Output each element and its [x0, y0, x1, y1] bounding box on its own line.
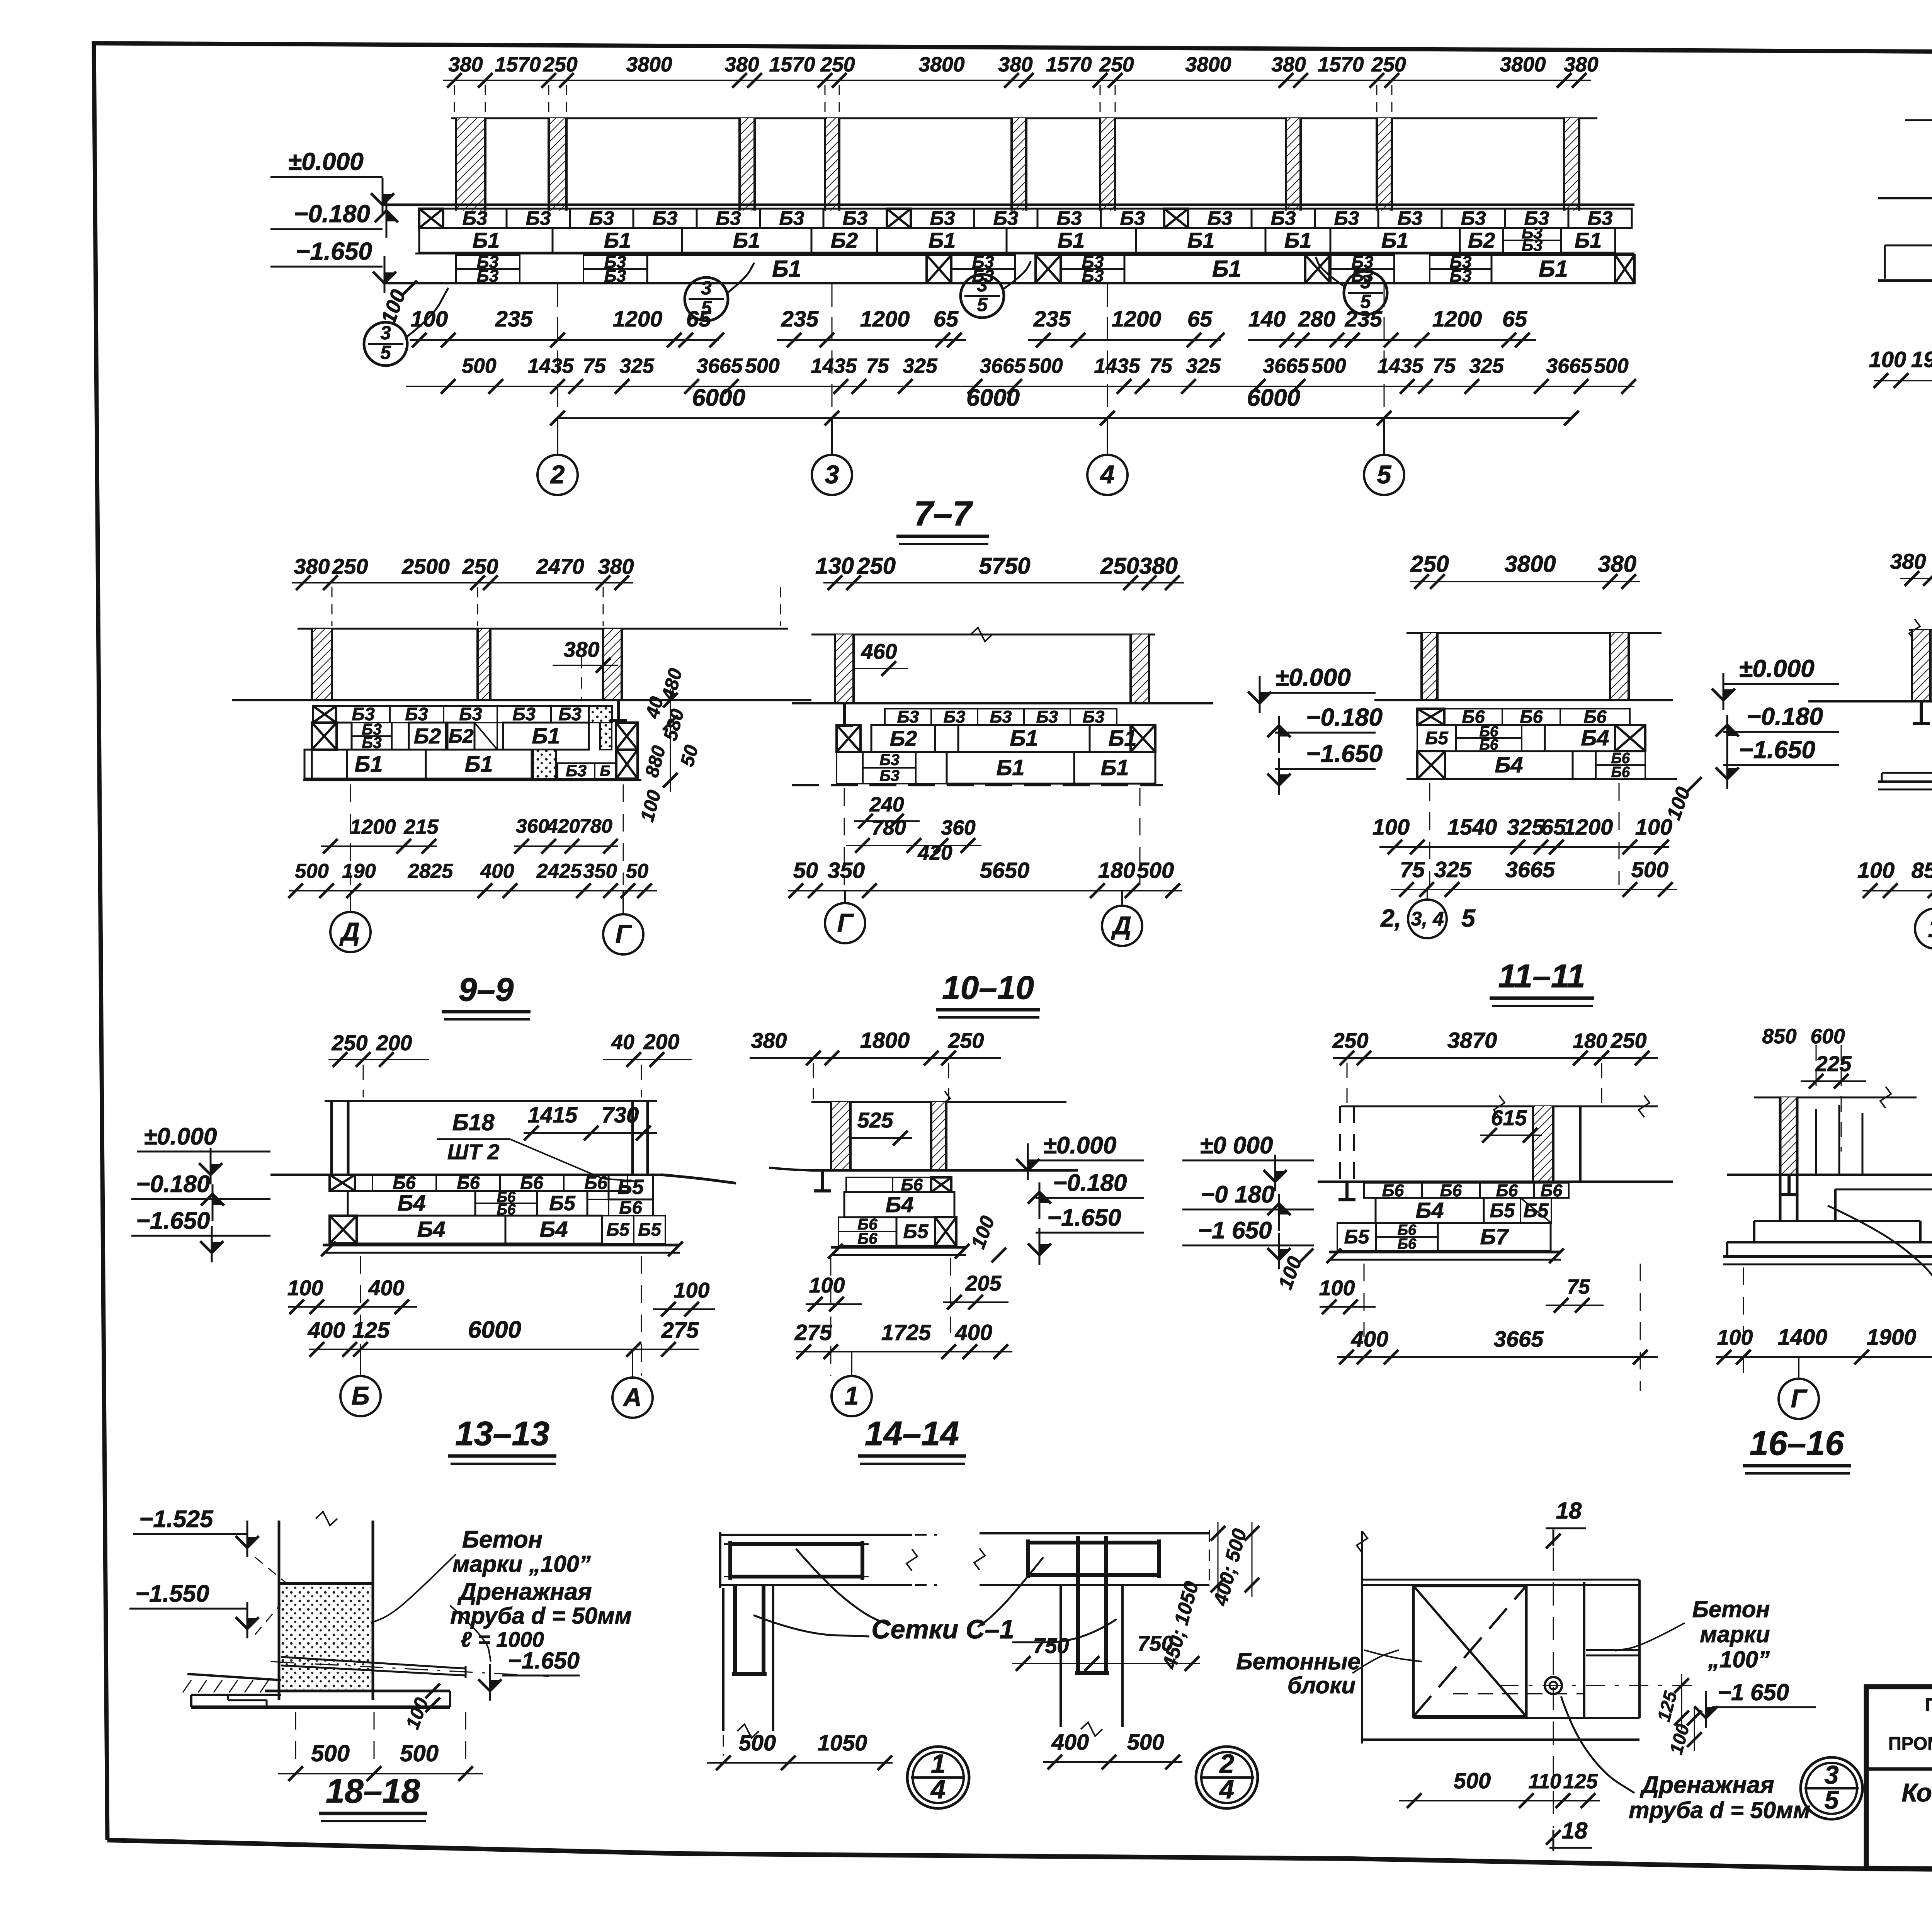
section 10-10 block row 1: [885, 709, 931, 725]
svg-text:Б6: Б6: [520, 1172, 543, 1193]
svg-text:325: 325: [1469, 355, 1504, 378]
section 16-16 leader podbetonka: [1828, 1206, 1932, 1298]
svg-text:420: 420: [546, 815, 580, 837]
svg-text:75: 75: [583, 355, 606, 378]
section 7-7 block row 1: [419, 209, 443, 228]
svg-text:100: 100: [1635, 815, 1672, 840]
svg-text:±0.000: ±0.000: [1275, 663, 1351, 691]
detail 2-4 mesh horizontal: [1028, 1541, 1159, 1544]
node circle 3/5 near title block: [1801, 1757, 1862, 1819]
svg-text:Б6: Б6: [857, 1230, 878, 1247]
svg-text:Бетонные: Бетонные: [1236, 1648, 1361, 1674]
svg-text:380: 380: [724, 53, 759, 76]
svg-text:500: 500: [462, 355, 497, 378]
section 7-7 column pair at grid 4: [1012, 118, 1026, 211]
svg-text:Б3: Б3: [589, 207, 614, 229]
svg-text:Б7: Б7: [1480, 1225, 1509, 1249]
svg-text:Компрессорная: Компрессорная: [1901, 1779, 1932, 1807]
section 7-7 extension lines: [557, 284, 558, 454]
svg-text:130: 130: [815, 553, 854, 579]
section 10-10 extension dashed: [844, 788, 845, 885]
detail 1-4 mesh vertical: [733, 1585, 737, 1674]
section 8-8 floor line: [1878, 197, 1932, 199]
section 9-9 extension dashed: [350, 784, 351, 885]
svg-text:250: 250: [820, 53, 855, 76]
section 8-8 band bottom: [1878, 279, 1932, 282]
svg-text:380: 380: [1139, 553, 1178, 579]
section 10-10 left anchor tee: [843, 703, 846, 726]
section 15 top wall line with break: [1341, 1106, 1658, 1107]
svg-text:3800: 3800: [1504, 551, 1556, 577]
svg-text:100: 100: [411, 307, 448, 332]
svg-text:100: 100: [809, 1273, 845, 1297]
section 9-9 grid circle right: [622, 891, 624, 914]
section 7-7 row 3 long blocks B1: [647, 255, 927, 283]
svg-text:Б5: Б5: [638, 1219, 661, 1240]
svg-text:Б4: Б4: [417, 1217, 445, 1242]
svg-text:Б3: Б3: [566, 762, 587, 780]
svg-text:Б3: Б3: [1522, 236, 1543, 255]
svg-text:Б4: Б4: [1581, 726, 1609, 750]
svg-text:100: 100: [1319, 1276, 1355, 1300]
border frame bottom edge: [107, 1840, 1932, 1876]
svg-text:75: 75: [866, 355, 889, 378]
svg-text:Б1: Б1: [1284, 228, 1311, 252]
svg-text:14–14: 14–14: [865, 1415, 959, 1453]
section 7-7 dim row a lines: [410, 339, 719, 341]
section 14-14 top dimension line: [750, 1057, 1001, 1059]
svg-text:Б3: Б3: [1036, 707, 1058, 726]
svg-text:Б1: Б1: [1058, 228, 1085, 252]
svg-text:3665: 3665: [1546, 355, 1592, 378]
svg-text:50: 50: [793, 858, 818, 883]
detail 1-4 wall band horizontal: [720, 1534, 912, 1536]
svg-text:Б3: Б3: [716, 207, 741, 229]
section 16-16 column hatched: [1780, 1097, 1797, 1175]
svg-text:Б3: Б3: [944, 707, 966, 726]
svg-text:4: 4: [930, 1774, 946, 1804]
section 9-9 block row 2: [312, 723, 337, 750]
svg-text:Б3: Б3: [879, 767, 900, 784]
svg-text:360: 360: [516, 815, 549, 837]
svg-text:марки „100”: марки „100”: [452, 1551, 591, 1577]
svg-text:250: 250: [948, 1029, 984, 1053]
svg-text:Б1: Б1: [464, 752, 493, 777]
svg-text:600: 600: [1810, 1025, 1845, 1048]
section 14-14 floor line: [769, 1168, 811, 1170]
plan detail left wall line: [1361, 1531, 1363, 1744]
svg-text:Б2: Б2: [449, 725, 474, 747]
section 16-16 extension dashed: [1743, 1267, 1744, 1376]
section 12-12 column left: [1912, 630, 1930, 701]
svg-text:ГОССТРОЙ СССР: ГОССТРОЙ СССР: [1925, 1694, 1932, 1715]
svg-text:100: 100: [1372, 815, 1410, 840]
section 14-14 block row 2: [844, 1192, 954, 1217]
section 13-13 top wall line: [325, 1100, 657, 1102]
svg-text:Б2: Б2: [414, 724, 441, 748]
svg-text:18: 18: [1556, 1498, 1582, 1524]
section 14-14 block row 1: [846, 1177, 893, 1192]
section 11-11 grid circle: [1427, 890, 1428, 900]
section 14-14 top wall line: [811, 1101, 1066, 1103]
svg-text:Б3: Б3: [897, 707, 919, 726]
svg-text:Б3: Б3: [1461, 207, 1486, 229]
svg-text:−0.180: −0.180: [1747, 703, 1823, 730]
svg-text:труба d = 50мм: труба d = 50мм: [450, 1603, 632, 1629]
svg-text:Б3: Б3: [879, 751, 900, 769]
section 9-9 column right: [603, 629, 622, 700]
svg-text:Б3: Б3: [526, 207, 551, 229]
section 9-9 top dimension line: [292, 582, 633, 583]
svg-text:750: 750: [1033, 1634, 1069, 1658]
svg-text:3: 3: [1360, 271, 1371, 293]
svg-text:500: 500: [1137, 858, 1174, 883]
section 14-14 block row 3: [838, 1217, 896, 1232]
svg-text:75: 75: [1567, 1276, 1590, 1298]
svg-text:−0.180: −0.180: [1306, 703, 1383, 731]
svg-text:Б5: Б5: [1490, 1199, 1515, 1221]
svg-text:180: 180: [1573, 1030, 1607, 1053]
svg-text:−1.650: −1.650: [508, 1648, 580, 1674]
svg-text:380: 380: [1564, 53, 1599, 76]
svg-text:7–7: 7–7: [914, 495, 973, 533]
svg-text:225: 225: [1815, 1052, 1852, 1076]
svg-text:1900: 1900: [1911, 347, 1932, 372]
section 9-9 column middle: [478, 629, 490, 700]
section 7-7 grid circle 2: [557, 418, 558, 455]
section 7-7 grid circle 3: [831, 418, 833, 455]
section 16-16 step 2 footing: [1727, 1241, 1932, 1243]
svg-text:235: 235: [1345, 307, 1383, 332]
section 7-7 column pair at grid 3: [740, 118, 755, 211]
svg-text:110: 110: [1528, 1770, 1561, 1793]
section 7-7 column pair at grid 5: [1286, 118, 1301, 211]
svg-text:Б4: Б4: [397, 1191, 425, 1216]
svg-text:Б5: Б5: [1344, 1226, 1370, 1248]
section 12-12 top wall line: [1909, 629, 1932, 631]
svg-text:Б6: Б6: [584, 1172, 607, 1193]
svg-text:Б1: Б1: [532, 724, 560, 748]
detail 1-4 leader: [796, 1549, 889, 1625]
section 7-7 leader circle 3/5 c: [961, 274, 1004, 318]
section 10-10 grid circle left: [844, 891, 846, 903]
svg-text:Б3: Б3: [1207, 207, 1233, 229]
svg-text:500: 500: [295, 860, 328, 883]
svg-text:5: 5: [1377, 461, 1392, 489]
svg-text:125: 125: [1563, 1770, 1598, 1793]
svg-text:100: 100: [1869, 347, 1906, 372]
svg-text:1570: 1570: [1046, 53, 1092, 76]
svg-text:500: 500: [1127, 1730, 1164, 1755]
svg-text:250: 250: [857, 553, 896, 579]
section 18-18 column walls: [278, 1521, 281, 1700]
svg-text:−1.650: −1.650: [296, 237, 372, 265]
section 7-7 band bottom line: [415, 282, 1634, 284]
section 14-14 extension dashed: [830, 1258, 832, 1376]
section 9-9 column left: [312, 629, 332, 700]
plan detail bottom lines: [1413, 1717, 1639, 1719]
svg-text:16–16: 16–16: [1750, 1424, 1844, 1462]
svg-text:±0.000: ±0.000: [288, 148, 364, 175]
svg-text:3665: 3665: [696, 355, 743, 378]
section 18-18 footing outline: [191, 1694, 281, 1696]
section 18-18 ground line left: [187, 1674, 281, 1680]
svg-text:А: А: [622, 1383, 642, 1412]
svg-text:блоки: блоки: [1287, 1672, 1355, 1698]
svg-text:Б5: Б5: [903, 1220, 929, 1242]
svg-text:275: 275: [794, 1320, 832, 1345]
section 12-12 footing lines: [1878, 781, 1932, 783]
section 8-8 left step row3: [1885, 245, 1932, 247]
section 11-11 top dimension line: [1410, 581, 1640, 582]
svg-text:1: 1: [845, 1382, 859, 1410]
section 13-13 extension dashed: [360, 1256, 361, 1376]
section 14-14 footing lines: [831, 1246, 966, 1249]
detail 2-4 node circle: [1196, 1747, 1258, 1808]
section 10-10 top wall line with break: [811, 634, 1155, 636]
svg-text:5: 5: [1461, 904, 1476, 932]
svg-text:500: 500: [400, 1740, 439, 1766]
svg-text:380: 380: [1598, 551, 1636, 577]
svg-text:3: 3: [701, 277, 711, 299]
svg-text:5750: 5750: [979, 553, 1030, 579]
section 18-18 drain pipe: [281, 1657, 466, 1669]
svg-text:Б2: Б2: [1468, 228, 1495, 252]
svg-text:500: 500: [311, 1740, 350, 1766]
section 7-7 top dimension line: [443, 80, 1591, 81]
detail 1-4 node circle: [907, 1747, 969, 1808]
svg-text:Д: Д: [1111, 912, 1131, 940]
section 16-16 floor lines: [1727, 1174, 1932, 1176]
svg-text:ℓ = 1000: ℓ = 1000: [461, 1628, 544, 1652]
svg-text:500: 500: [1594, 355, 1629, 378]
svg-text:„100”: „100”: [1708, 1647, 1770, 1672]
section 10-10 grid circle right: [1121, 891, 1123, 906]
svg-text:Б1: Б1: [473, 228, 500, 252]
section 7-7 row 3 X boxes: [927, 255, 951, 283]
section 11-11 band bottom: [1406, 778, 1677, 780]
svg-text:50: 50: [626, 860, 648, 883]
svg-text:325: 325: [619, 355, 655, 378]
svg-text:Б2: Б2: [831, 228, 858, 252]
svg-text:10–10: 10–10: [942, 970, 1034, 1006]
svg-text:360: 360: [941, 816, 976, 839]
svg-text:500: 500: [1454, 1769, 1491, 1793]
section 11-11 column right: [1610, 633, 1629, 700]
section 7-7 grid circle 5: [1383, 418, 1385, 455]
section 13-13 top dimension line: [328, 1059, 429, 1060]
svg-text:180: 180: [1098, 858, 1135, 883]
plan detail dashed pipe line: [1499, 1685, 1700, 1686]
svg-text:500: 500: [745, 355, 780, 378]
plan detail top wall lines: [1362, 1579, 1639, 1581]
section 12-12 left anchor tee: [1920, 701, 1923, 723]
svg-text:40: 40: [611, 1031, 634, 1054]
svg-text:3665: 3665: [1494, 1327, 1544, 1352]
svg-text:Б1: Б1: [996, 755, 1024, 780]
section 15 floor line: [1318, 1180, 1673, 1183]
section 10-10 block row 3: [837, 752, 863, 784]
section 13-13 column left: [330, 1101, 333, 1175]
svg-text:2500: 2500: [401, 555, 450, 578]
svg-text:200: 200: [643, 1030, 680, 1054]
section 7-7 top wall line: [451, 117, 1597, 119]
svg-text:Б3: Б3: [512, 704, 536, 724]
svg-text:850: 850: [1762, 1025, 1797, 1048]
svg-text:780: 780: [579, 815, 612, 837]
section 18-18 leader dashes: [255, 1557, 288, 1584]
section 7-7 grid circle 4: [1107, 418, 1108, 455]
svg-text:350: 350: [828, 858, 865, 883]
section 11-11 block row 1: [1417, 709, 1444, 725]
svg-text:±0.000: ±0.000: [1043, 1132, 1116, 1159]
svg-text:Б18: Б18: [452, 1109, 495, 1135]
svg-text:65: 65: [1187, 307, 1213, 332]
svg-text:Б3: Б3: [1120, 207, 1145, 229]
svg-text:Б5: Б5: [1425, 728, 1448, 748]
svg-text:6000: 6000: [468, 1317, 521, 1343]
section 12-12 top dimension line: [1900, 578, 1932, 579]
detail 2-4 wall band vertical: [1060, 1585, 1062, 1727]
section 15 footing lines: [1329, 1251, 1561, 1254]
section 16-16 top wall line: [1754, 1097, 1917, 1099]
section 15 column right hatched: [1533, 1106, 1553, 1182]
plan detail right wall: [1583, 1582, 1585, 1718]
svg-text:730: 730: [602, 1103, 639, 1128]
svg-text:Б5: Б5: [549, 1192, 576, 1215]
section 15 block row 1: [1364, 1183, 1422, 1198]
section 7-7 leader circle 3/5 a: [364, 322, 407, 366]
svg-text:780: 780: [871, 816, 906, 839]
svg-text:125: 125: [352, 1318, 390, 1343]
svg-text:Б6: Б6: [457, 1172, 480, 1193]
section 16-16 step 1: [1754, 1220, 1920, 1222]
section 16-16 grid circle: [1798, 1357, 1799, 1379]
svg-text:380: 380: [751, 1029, 787, 1053]
svg-text:6000: 6000: [966, 384, 1020, 411]
svg-text:100: 100: [1857, 858, 1895, 883]
svg-text:1200: 1200: [1432, 307, 1482, 332]
svg-text:Б4: Б4: [1415, 1198, 1444, 1223]
svg-text:1050: 1050: [818, 1731, 867, 1755]
svg-text:1725: 1725: [881, 1320, 931, 1345]
svg-text:−0.180: −0.180: [136, 1171, 210, 1197]
svg-text:2425: 2425: [536, 860, 582, 883]
svg-text:1570: 1570: [769, 53, 815, 76]
svg-text:100: 100: [1717, 1325, 1753, 1349]
svg-text:250: 250: [1611, 1029, 1647, 1053]
section 10-10 column right: [1131, 634, 1149, 703]
svg-text:3: 3: [1825, 1761, 1839, 1789]
svg-text:−1.650: −1.650: [1739, 736, 1815, 764]
section 7-7 column partition 250: [549, 118, 566, 211]
svg-text:65: 65: [1502, 307, 1527, 332]
svg-text:Б6: Б6: [619, 1197, 642, 1218]
section 7-7 ground floor line: [383, 204, 1634, 206]
svg-text:420: 420: [917, 842, 952, 864]
svg-text:Б3: Б3: [779, 207, 804, 229]
svg-text:380: 380: [1890, 549, 1926, 573]
svg-text:235: 235: [781, 307, 819, 332]
svg-text:1200: 1200: [350, 816, 396, 839]
svg-text:400: 400: [368, 1276, 405, 1300]
svg-text:65: 65: [686, 307, 711, 332]
svg-text:−1.650: −1.650: [1047, 1204, 1121, 1231]
svg-text:Б1: Б1: [1187, 228, 1214, 252]
svg-text:3800: 3800: [626, 53, 672, 76]
svg-text:Б3: Б3: [1271, 207, 1296, 229]
svg-text:325: 325: [1507, 815, 1544, 840]
svg-text:3, 4: 3, 4: [1411, 908, 1444, 930]
svg-text:2825: 2825: [408, 860, 453, 883]
svg-text:380: 380: [1271, 53, 1306, 76]
svg-text:Б4: Б4: [539, 1217, 568, 1242]
svg-text:460: 460: [861, 640, 897, 663]
section 7-7 dim row b line: [406, 386, 1634, 387]
section 13-13 block row 3: [330, 1216, 357, 1243]
svg-text:400: 400: [1051, 1730, 1089, 1755]
svg-text:Д: Д: [339, 918, 360, 946]
section 13-13 grid circle B: [360, 1349, 361, 1376]
svg-text:65: 65: [934, 307, 959, 332]
svg-text:ШТ 2: ШТ 2: [447, 1140, 500, 1164]
svg-text:Б3: Б3: [1057, 207, 1082, 229]
svg-text:11–11: 11–11: [1498, 958, 1585, 995]
svg-text:75: 75: [1400, 857, 1425, 882]
svg-text:250: 250: [1371, 53, 1406, 76]
section 14-14 column right hatched: [931, 1102, 946, 1170]
svg-text:205: 205: [965, 1271, 1002, 1295]
section 9-9 block row 3: [304, 750, 347, 779]
svg-text:1435: 1435: [811, 355, 857, 378]
svg-text:марки: марки: [1700, 1621, 1770, 1647]
svg-text:275: 275: [661, 1318, 699, 1343]
section 16-16 wall below floor: [1779, 1175, 1782, 1221]
title block left cell divider: [1866, 1767, 1932, 1771]
svg-text:235: 235: [495, 307, 533, 332]
svg-text:1900: 1900: [1867, 1325, 1917, 1350]
svg-text:Дренажная: Дренажная: [457, 1579, 592, 1605]
section 9-9 band bottom: [303, 779, 641, 781]
svg-text:Б5: Б5: [617, 1176, 644, 1199]
svg-text:500: 500: [1028, 355, 1063, 378]
svg-text:325: 325: [1434, 857, 1472, 882]
section 9-9 top wall line: [298, 628, 788, 630]
svg-text:1200: 1200: [1563, 815, 1613, 840]
section 9-9 anchor tee: [617, 700, 620, 720]
svg-text:1435: 1435: [527, 355, 574, 378]
svg-text:235: 235: [1033, 307, 1071, 332]
svg-text:3665: 3665: [1263, 355, 1309, 378]
section 18-18 concrete texture: [281, 1585, 371, 1689]
svg-text:1200: 1200: [860, 307, 910, 332]
section 10-10 band bottom dashed: [792, 784, 1163, 786]
svg-text:Б: Б: [600, 763, 610, 779]
svg-text:−0.180: −0.180: [294, 200, 370, 228]
svg-text:6000: 6000: [692, 384, 745, 411]
svg-text:2: 2: [550, 461, 565, 489]
svg-text:400: 400: [955, 1320, 992, 1345]
svg-text:18–18: 18–18: [326, 1772, 420, 1810]
svg-text:Б1: Б1: [354, 752, 383, 777]
svg-text:Б6: Б6: [1398, 1236, 1417, 1252]
svg-text:труба d = 50мм: труба d = 50мм: [1629, 1797, 1810, 1823]
svg-text:5: 5: [380, 342, 391, 363]
svg-text:Б3: Б3: [463, 207, 488, 229]
section 14-14 left anchor tee: [821, 1170, 824, 1191]
svg-text:1400: 1400: [1778, 1325, 1828, 1350]
svg-text:215: 215: [403, 816, 439, 839]
